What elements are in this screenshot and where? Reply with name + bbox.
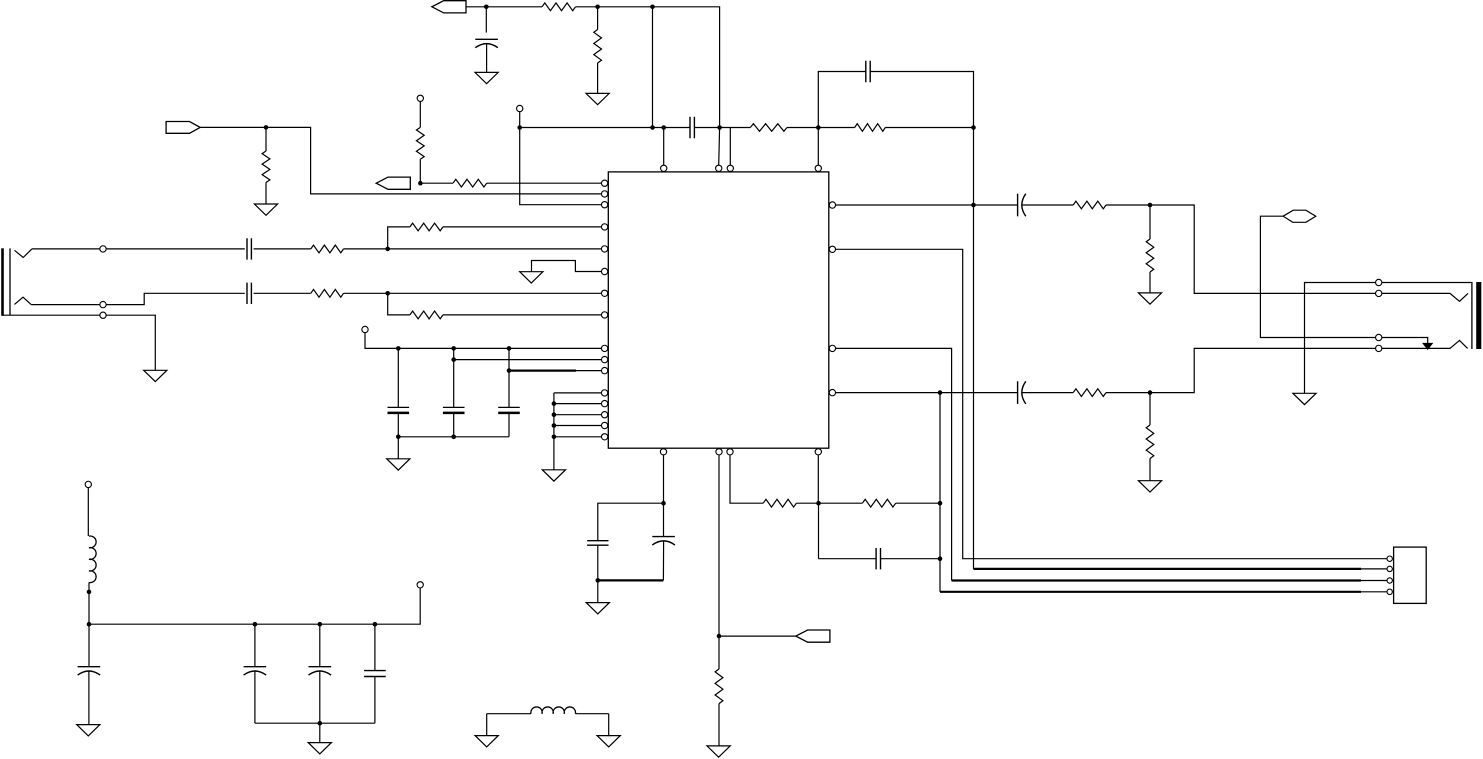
wire left jack ring line [31, 293, 245, 304]
wire R8 to node BL [344, 292, 388, 294]
junction VMID gnd node [596, 578, 601, 583]
wire node BL to pin LINE2 [388, 292, 602, 294]
wire feedback loop up-right [870, 72, 973, 128]
wire C11 bottom lead [88, 672, 90, 725]
wire C4 to R12 [1022, 204, 1073, 206]
wire T5 to R4 [419, 101, 421, 127]
junction bottom rail ground tap [318, 721, 323, 726]
left jack body bar (thick) [1, 248, 4, 315]
resistor R9 [410, 311, 443, 319]
wire SD node to R17 [819, 502, 863, 504]
junction bottom rail at C8 [396, 435, 401, 440]
junction bus 2 [552, 401, 557, 406]
wire bus tap 5 [554, 436, 602, 438]
wire left jack sleeve line [3, 315, 156, 370]
IC U1 bottom pin 4 [815, 449, 821, 455]
wire right jack detect stub [1382, 338, 1428, 344]
IC U1 left pin 4 [601, 224, 607, 230]
resistor R12 [1073, 201, 1106, 209]
IC U1 left pin 7 [601, 290, 607, 296]
wire OUTR to right jack sleeve-line [1150, 348, 1376, 392]
wire R3 to ground [597, 63, 599, 93]
wire R1 to ground [265, 183, 267, 205]
ground G9 [308, 743, 331, 754]
capacitor C4 [1017, 194, 1019, 217]
wire C2 right lead [694, 127, 719, 129]
wire pin stub below feedback node L [817, 128, 819, 166]
resistor R1 [262, 151, 270, 183]
wire hexagon to jack detect pin [1260, 216, 1375, 337]
left jack ring contact [15, 297, 32, 304]
junction OUTR node [938, 390, 943, 395]
connector J3 [1394, 547, 1427, 603]
ground G16 [597, 736, 620, 747]
wire VREFOUT to flag [719, 635, 796, 637]
IC U1 left pin 2 [601, 191, 607, 197]
junction feedback node L [816, 125, 821, 130]
wire VMID bottom bold [598, 579, 664, 581]
wire pin XO stub [718, 128, 721, 166]
wire R15 to ground [1149, 459, 1151, 481]
junction VREFOUT node [717, 634, 722, 639]
IC U1 top pin 1 [661, 165, 667, 171]
wire C17 right lead [881, 558, 941, 560]
wire T4 stem [365, 332, 398, 348]
wire harness bold line 3 [952, 579, 1361, 581]
junction SD node [816, 501, 821, 506]
resistor R17 [862, 499, 895, 507]
ground G3 [586, 93, 609, 104]
junction bus 3 [552, 412, 557, 417]
wire R10 to feedback node [787, 127, 818, 129]
wire C7 to R8 [254, 292, 311, 294]
wire VMID node left [598, 503, 664, 541]
ground G10 [387, 459, 410, 470]
IC U1 left pin 10 [601, 356, 607, 362]
wire harness line 2 tail [1361, 568, 1387, 570]
junction OUTR node2 [1148, 390, 1153, 395]
wire bus to ground [553, 437, 555, 470]
arrow switch contact (right jack) [1423, 343, 1433, 349]
wire harness vertical 1 (x=940) [939, 393, 941, 592]
wire filter bottom rail [255, 722, 375, 724]
wire C12 top lead [254, 624, 256, 667]
wire harness bold line 4 [940, 591, 1361, 593]
wire C16 top lead [663, 503, 665, 536]
junction VREF at C10 [507, 346, 512, 351]
junction OUTL node [971, 203, 976, 208]
IC U1 left pin 15 [601, 422, 607, 428]
wire harness bold line 2 [974, 568, 1362, 570]
wire right jack tip contact [1382, 293, 1468, 301]
wire xtal left node to C2 [520, 127, 664, 129]
junction feedback node R [971, 125, 976, 130]
wire C8 bottom lead [397, 413, 399, 437]
IC U1 bottom pin 2 [716, 449, 722, 455]
resistor R3 [594, 30, 602, 64]
wire cap bank bottom rail [398, 436, 509, 438]
capacitor C9 [443, 406, 465, 408]
IC U1 bottom pin 1 [660, 449, 666, 455]
wire C12 bottom lead [254, 672, 256, 724]
junction xtal left node [517, 125, 522, 130]
left jack pin T [100, 246, 106, 252]
wire pin XI stub [663, 128, 665, 166]
wire C9 bottom lead [453, 413, 455, 437]
right jack body bar (thin) [1471, 282, 1473, 349]
IC U1 left pin 8 [601, 312, 607, 318]
resistor R8 [311, 289, 344, 297]
capacitor C10 [498, 406, 520, 408]
resistor R10 [750, 124, 787, 132]
terminal T2 [85, 481, 91, 487]
ground G1 [254, 204, 277, 215]
wire harness vertical 4 (x=973.5) [973, 205, 975, 569]
left jack pin R [100, 301, 106, 307]
junction C2 left node [661, 125, 666, 130]
wire right jack ring contact [1382, 340, 1468, 348]
junction VDD node B [595, 5, 600, 10]
left jack body bar (thin) [9, 248, 11, 315]
ground G14 [707, 746, 730, 757]
right jack pin RS [1376, 334, 1382, 340]
capacitor C11 [78, 666, 101, 668]
resistor R14 [1073, 389, 1106, 397]
capacitor C17 [876, 548, 880, 569]
capacitor C15 [587, 540, 608, 542]
junction VREF at C8 [396, 346, 401, 351]
wire feedback node R down to OUTL line [973, 128, 975, 206]
wire C8 leads [397, 348, 399, 407]
IC U1 left pin 3 [601, 202, 607, 208]
wire R14 to OUTR node2 [1106, 392, 1150, 394]
wire C14 top lead [374, 624, 376, 670]
junction bus1 tap [938, 501, 943, 506]
wire harness line 4 tail [1361, 591, 1387, 593]
wire T1 stem [519, 111, 521, 127]
wire VDD node B to node C [598, 6, 653, 8]
IC U1 right pin 3 [829, 345, 835, 351]
capacitor C3 [866, 61, 870, 82]
wire R12 to OUTL node2 [1106, 204, 1150, 206]
wire C10 leads [508, 348, 510, 407]
resistor R6 [311, 245, 344, 253]
wire pin OUTL to node [832, 204, 974, 206]
wire C2 left lead [664, 127, 690, 129]
wire VDD node A to R2 [486, 6, 542, 8]
wire line to pin VREF3 (bold) [509, 370, 576, 372]
wire MICBIAS node to R5 [420, 182, 453, 184]
wire C17 left lead [819, 558, 877, 560]
wire feedback loop up-left [818, 72, 866, 128]
wire bus tap 3 [554, 414, 602, 416]
IC U1 left pin 13 [601, 400, 607, 406]
junction L1 bottom [87, 590, 92, 595]
junction node BL [385, 291, 390, 296]
ground G13 [586, 603, 609, 614]
wire R6 to node AL [344, 248, 388, 250]
junction OUTL node2 [1148, 203, 1153, 208]
inductor L2 [531, 707, 576, 714]
left jack tip contact [15, 249, 32, 258]
capacitor C8 [388, 406, 410, 408]
IC U1 left pin 1 [601, 180, 607, 186]
ground G5 [1138, 481, 1161, 492]
wire C5 to R14 [1022, 392, 1073, 394]
wire bottom rail to ground [397, 437, 399, 459]
wire C11 top lead [88, 624, 90, 667]
inductor L1 [89, 536, 96, 583]
wire clk line to R10 [730, 127, 750, 129]
net flag MICBIAS [376, 177, 410, 189]
wire VDD node C down to xtal line [652, 7, 654, 128]
connector J3 pin 3 [1387, 578, 1392, 583]
capacitor C6 [247, 238, 251, 259]
resistor R2 [542, 3, 576, 11]
ground G4 [1138, 293, 1161, 304]
junction VA rail at C13 [318, 622, 323, 627]
net flag VINL [166, 122, 200, 134]
junction top-left input node [264, 125, 269, 130]
wire T2 to L1 [87, 487, 89, 536]
wire pin SDOUT down-right [730, 455, 763, 504]
wire L1 to VA rail [88, 582, 90, 624]
wire junction to pin MICIN (steps down) [266, 127, 602, 193]
wire VMID gnd stem [597, 580, 599, 602]
wire SD node down to C17 [818, 503, 820, 559]
wire L2 right drop [608, 714, 610, 736]
IC U1 left pin 11 [601, 367, 607, 373]
capacitor C5 [1017, 381, 1019, 404]
wire C1 bottom lead [486, 44, 488, 72]
wire pin SDIN down [817, 455, 819, 504]
wire OUTL node to C4 [974, 204, 1018, 206]
wire R11 to feedback node R [885, 127, 973, 129]
ground G12 [520, 272, 543, 283]
resistor R16 [763, 499, 796, 507]
resistor R7 [410, 223, 443, 231]
junction bus1 cap tap [938, 556, 943, 561]
resistor R5 [453, 179, 487, 187]
wire pin OUTR to node [832, 392, 941, 394]
wire left jack tip line [32, 248, 245, 250]
junction node AL [385, 247, 390, 252]
wire VDD flag to node [466, 6, 486, 8]
wire R7 to pin MUTE1 [443, 226, 602, 228]
wire ground bus vertical [553, 393, 555, 437]
wire node BL down to R9 [388, 293, 410, 315]
wire pin VREFOUT down [718, 455, 720, 636]
junction VMID node [661, 501, 666, 506]
IC U1 left pin 16 [601, 434, 607, 440]
IC U1 top pin 3 [727, 165, 733, 171]
ground G6 [1293, 393, 1316, 404]
wire R3 top lead [597, 7, 599, 30]
IC U1 right pin 1 [829, 202, 835, 208]
terminal T5 [417, 95, 423, 101]
wire line to pin VREF2 [454, 359, 602, 361]
capacitor C2 [690, 117, 694, 138]
wire VDD top rail to corner [653, 7, 720, 128]
IC U1 left pin 9 [601, 345, 607, 351]
wire harness line 3 tail [1361, 580, 1387, 582]
junction VREF3 tap [507, 368, 512, 373]
junction VDD node C [650, 5, 655, 10]
capacitor C13 [309, 666, 332, 668]
IC U1 left pin 12 [601, 390, 607, 396]
left jack pin S [100, 312, 106, 318]
junction VA rail at C11 [87, 622, 92, 627]
junction bottom rail at C9 [451, 435, 456, 440]
junction at x=652.5 on xtal line [650, 125, 655, 130]
wire C9 leads [453, 348, 455, 407]
net flag VDD [432, 1, 466, 13]
IC U1 bottom pin 3 [727, 449, 733, 455]
junction VREF at C9 [451, 346, 456, 351]
wire pin BCK right then down (x=962.7) [832, 249, 1387, 558]
junction bus 4 [552, 423, 557, 428]
wire pin DGND loop [532, 261, 602, 272]
wire L2 left drop [486, 714, 488, 736]
capacitor C7 [247, 283, 251, 304]
terminal T3 [417, 582, 423, 588]
net flag HPDET (hexagon) [1283, 210, 1316, 222]
junction VA rail at C14 [373, 622, 378, 627]
IC U1 left pin 6 [601, 268, 607, 274]
wire right jack top line to ground [1305, 283, 1376, 394]
IC U1 left pin 5 [601, 246, 607, 252]
connector J3 pin 2 [1387, 566, 1392, 571]
wire R17 to bus1 vertical [896, 502, 940, 504]
capacitor C14 [364, 670, 386, 672]
connector J3 pin 1 [1387, 556, 1392, 561]
wire OUTR node to C5 [940, 392, 1018, 394]
wire R4 to MICBIAS node [419, 159, 421, 183]
wire C15 bottom lead [597, 545, 599, 580]
wire bus tap 4 [554, 425, 602, 427]
wire C16 bottom lead [662, 541, 664, 580]
wire R18 top lead [718, 636, 720, 669]
resistor R4 [416, 127, 424, 159]
wire C1 top lead [485, 7, 487, 33]
terminal T1 [517, 105, 523, 111]
wire R2 to node B [576, 6, 598, 8]
right jack body bar (thick) [1476, 282, 1481, 349]
wire C14 bottom lead [374, 677, 376, 724]
wire pin VMID down [663, 455, 665, 504]
right jack pin S [1376, 279, 1382, 285]
capacitor C1 [475, 38, 498, 40]
wire C6 to R6 [254, 248, 311, 250]
right jack pin R [1376, 345, 1382, 351]
IC U1 top pin 4 [815, 165, 821, 171]
wire R13 top lead [1149, 205, 1151, 239]
ground G2 [475, 72, 498, 83]
wire C13 top lead [319, 624, 321, 667]
ground G15 [475, 736, 498, 747]
IC U1 right pin 2 [829, 246, 835, 252]
IC U1 right pin 4 [829, 389, 835, 395]
net flag VREFOUT [796, 630, 830, 642]
wire R16 to SD node [796, 502, 818, 504]
wire R18 to ground [718, 704, 720, 746]
wire VA rail [89, 588, 420, 625]
ground G11 [542, 470, 565, 481]
wire bus tap 2 [554, 403, 602, 405]
wire R9 to pin MUTE2 [443, 314, 602, 316]
wire C10 bottom lead [508, 413, 510, 437]
wire resistor R1 leads [265, 127, 267, 151]
junction MICBIAS node [418, 181, 423, 186]
junction VREF2 tap [451, 357, 456, 362]
junction VDD node A [484, 5, 489, 10]
IC U1 top pin 2 [716, 165, 722, 171]
ground G8 [77, 725, 100, 736]
wire R5 to pin MICBIAS [487, 182, 602, 184]
wire flag VINL to junction [200, 126, 266, 128]
wire feedback node L to R11 [818, 127, 854, 129]
wire C13 bottom lead [319, 672, 321, 724]
wire pin LRCK right then down (x=951.6) [832, 348, 952, 580]
resistor R15 [1146, 425, 1154, 459]
wire line to pin VREF3 (thin) [576, 370, 602, 372]
wire R15 top lead [1149, 393, 1151, 425]
right jack pin T [1376, 290, 1382, 296]
resistor R11 [855, 124, 886, 132]
wire L2 left lead [487, 713, 531, 715]
wire bottom rail to ground [319, 723, 321, 742]
connector J3 pin 4 [1387, 589, 1392, 594]
IC U1 left pin 14 [601, 412, 607, 418]
wire node AL up to R7 [388, 227, 410, 249]
junction bus 5 [552, 435, 557, 440]
resistor R18 [715, 669, 723, 704]
wire ground bus with taps [554, 392, 602, 394]
wire T1 branch down to pin AVDD [520, 128, 602, 205]
wire R13 to ground [1149, 272, 1151, 293]
junction VA rail at C12 [253, 622, 258, 627]
wire L2 right lead [575, 713, 608, 715]
capacitor C16 [652, 536, 675, 538]
ground G7 [144, 370, 167, 381]
resistor R13 [1146, 239, 1154, 272]
wire OUTL to right jack ring [1150, 205, 1376, 293]
wire VREF rail [398, 347, 602, 349]
terminal T4 [362, 326, 368, 332]
wire xtal node to pin CLKOUT corner [720, 128, 731, 166]
op-amp codec IC U1 [608, 172, 829, 448]
wire right jack frame top [1382, 282, 1472, 284]
wire node AL to pin LINE1 [388, 248, 602, 250]
junction C2 right node [717, 125, 722, 130]
capacitor C12 [244, 666, 267, 668]
